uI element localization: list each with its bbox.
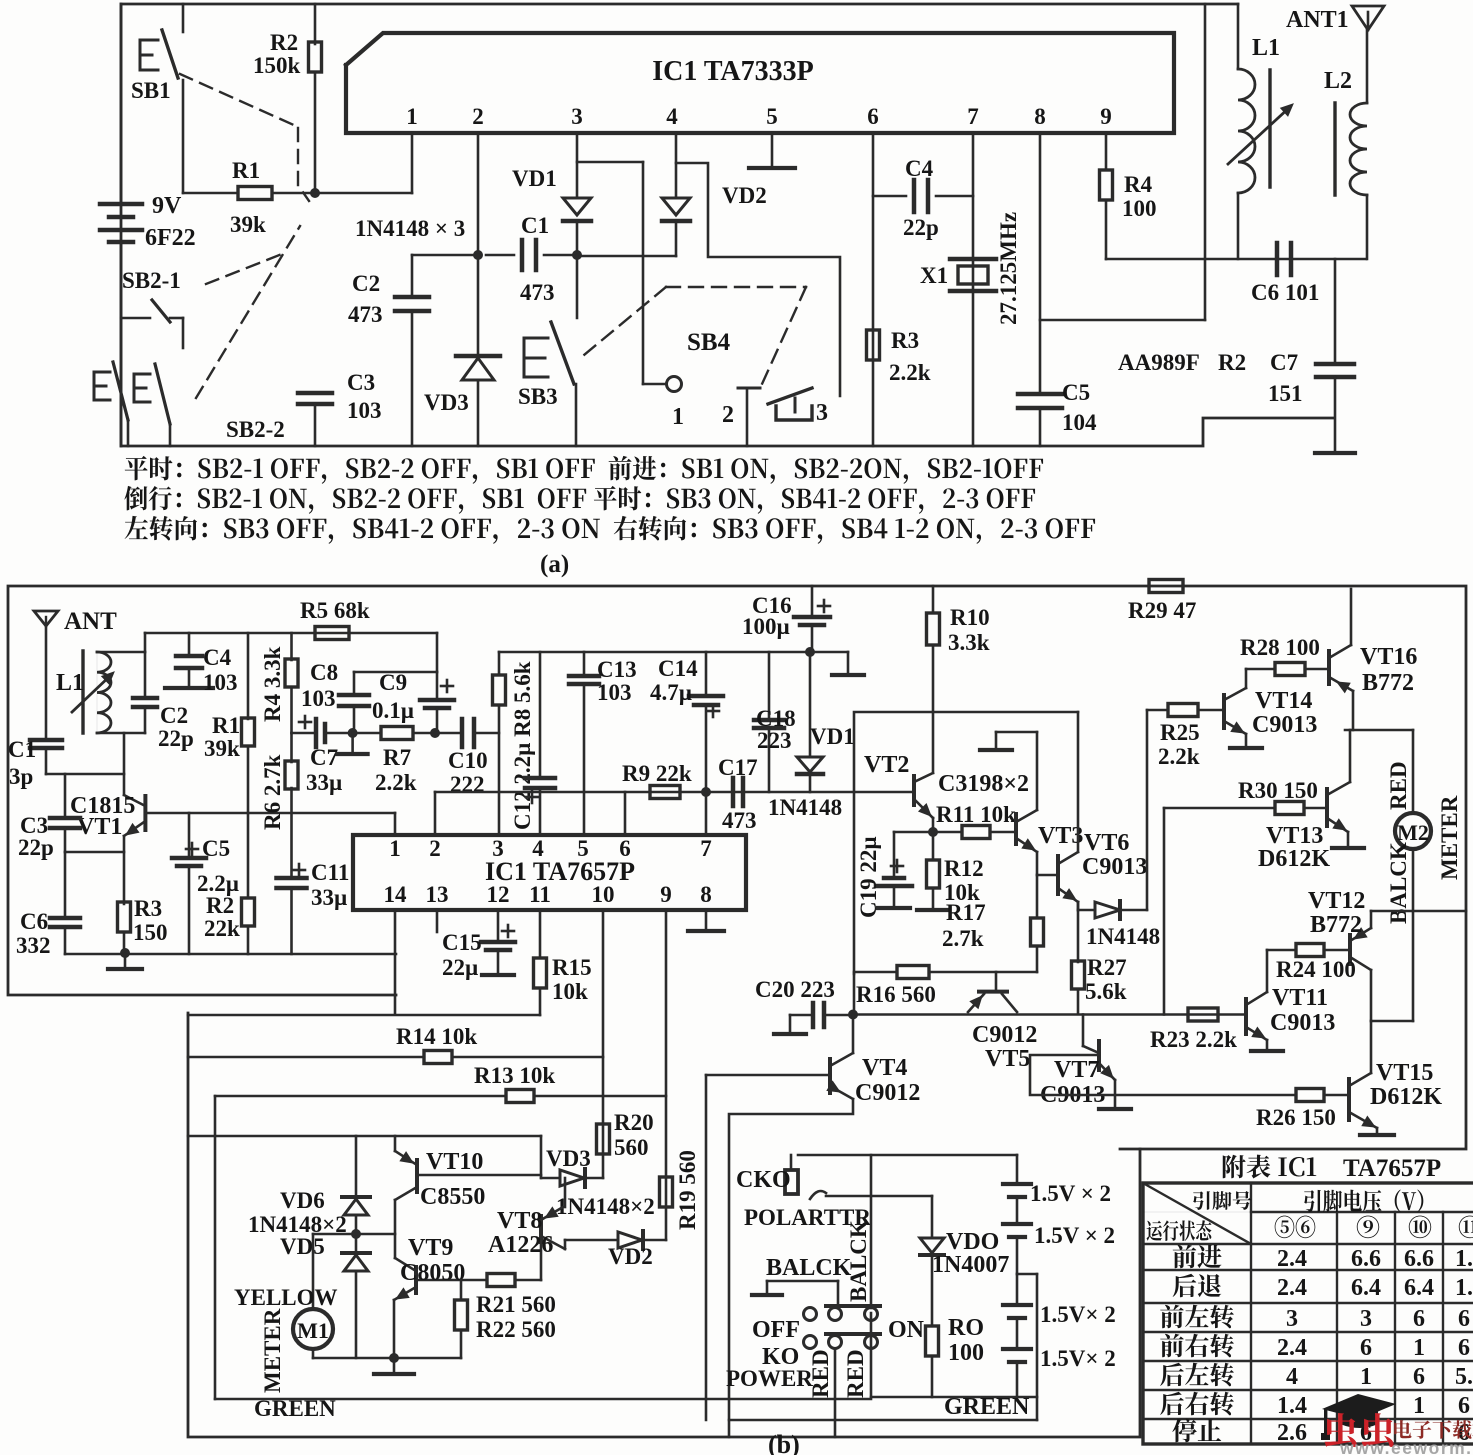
capacitor C15 22u	[497, 910, 500, 942]
resistor R19 560	[660, 1177, 673, 1207]
svg-text:33µ: 33µ	[306, 770, 342, 795]
svg-text:6: 6	[1458, 1393, 1470, 1419]
svg-text:1: 1	[1413, 1393, 1425, 1419]
svg-text:BALCK: BALCK	[766, 1255, 852, 1281]
capacitor C12 2.2u	[539, 652, 542, 778]
svg-text:8: 8	[1034, 104, 1046, 129]
svg-text:ANT: ANT	[64, 608, 117, 635]
resistor R20 560	[597, 1124, 610, 1154]
resistor R24 100	[1267, 949, 1296, 952]
resistor R9 22k	[650, 786, 680, 799]
wire pin8	[1039, 133, 1042, 394]
svg-text:39k: 39k	[204, 736, 240, 761]
wire C3 to emitter	[65, 851, 124, 854]
crystal CKO	[785, 1170, 798, 1194]
svg-text:R2: R2	[270, 30, 298, 55]
amp box right edge	[1077, 712, 1080, 852]
diode VD2 receiver	[565, 1239, 618, 1242]
table row lines	[1251, 1211, 1473, 1213]
svg-text:103: 103	[301, 686, 336, 711]
svg-text:R17: R17	[946, 900, 986, 925]
svg-text:1: 1	[406, 104, 418, 129]
wire box left edge to C20	[853, 974, 856, 1015]
inductor L1 tank	[1237, 4, 1240, 69]
M1 bottom wire	[312, 1349, 315, 1358]
transistor VT3	[1014, 814, 1018, 844]
svg-text:SB1: SB1	[131, 78, 171, 103]
svg-text:VT10: VT10	[426, 1149, 483, 1175]
transistor VT11 C9013	[1266, 950, 1269, 992]
dashed link SB2-1	[206, 254, 282, 284]
SB4 contact 3 lever	[768, 388, 812, 404]
svg-text:VT4: VT4	[862, 1055, 907, 1081]
svg-text:2.6: 2.6	[1277, 1420, 1307, 1446]
svg-text:104: 104	[1062, 410, 1097, 435]
svg-text:C15: C15	[442, 930, 482, 955]
table title 附表 IC1 TA7657P	[1223, 1155, 1316, 1179]
resistor R5 68k	[315, 627, 349, 640]
resistor R6 2.7k	[290, 733, 293, 762]
svg-text:2.2k: 2.2k	[889, 360, 931, 385]
svg-text:AA989F: AA989F	[1118, 350, 1200, 375]
capacitor C7 151	[1334, 259, 1337, 364]
svg-text:C1: C1	[521, 213, 549, 238]
top rail receiver	[145, 632, 437, 635]
ground rail	[65, 953, 396, 956]
capacitor C4 103	[188, 633, 191, 656]
wire VD2 bypass loop	[676, 163, 840, 396]
crystal X1 27.125MHz	[950, 257, 996, 262]
svg-text:332: 332	[16, 933, 51, 958]
wire VT4 emitter to switch box	[729, 1099, 853, 1437]
L1 core bar	[1268, 70, 1271, 187]
junction dot VD5 VD6	[351, 1229, 361, 1239]
svg-text:SB4: SB4	[687, 329, 731, 356]
svg-text:R20: R20	[614, 1110, 654, 1135]
svg-text:C13: C13	[597, 657, 637, 682]
svg-text:10k: 10k	[552, 979, 588, 1004]
svg-text:C5: C5	[1062, 380, 1090, 405]
svg-text:6: 6	[1458, 1306, 1470, 1332]
svg-text:2.4: 2.4	[1277, 1246, 1307, 1272]
table row 前右转	[1160, 1334, 1234, 1358]
wire R25 riser	[1146, 710, 1149, 910]
header 运行状态	[1147, 1220, 1212, 1241]
svg-text:1N4148 × 3: 1N4148 × 3	[355, 216, 465, 241]
wire pin1 down to node line	[411, 133, 414, 193]
svg-text:1.5V × 2: 1.5V × 2	[1034, 1223, 1115, 1248]
svg-text:6: 6	[619, 836, 631, 861]
circled pin numbers	[1275, 1216, 1316, 1239]
transistor VT5 C9012	[995, 972, 998, 991]
resistor R28 100	[1246, 668, 1275, 671]
svg-text:C9013: C9013	[1270, 1010, 1335, 1036]
svg-text:VT11: VT11	[1272, 985, 1328, 1011]
svg-text:2.4: 2.4	[1277, 1335, 1307, 1361]
wire C2 top line	[412, 254, 478, 257]
pin6 stub	[624, 792, 627, 835]
resistor R1 39k	[183, 192, 238, 195]
wire VT4 base long left wire	[705, 1075, 708, 1420]
svg-text:2: 2	[722, 402, 734, 428]
resistor R27 5.6k	[1077, 910, 1080, 962]
svg-text:0.1µ: 0.1µ	[372, 698, 414, 723]
wire SB1 to node R1 line	[182, 80, 185, 193]
pin7 stub	[705, 792, 708, 835]
diode VD1 1N4148	[809, 652, 812, 757]
svg-text:SB2-2: SB2-2	[226, 417, 285, 442]
svg-text:SB2-1: SB2-1	[122, 268, 181, 293]
wire C2/collector rail riser	[144, 633, 147, 652]
svg-text:2.2k: 2.2k	[375, 770, 417, 795]
M2 top wire RED	[1412, 730, 1415, 813]
resistor R7 2.2k	[353, 732, 381, 735]
svg-text:L1: L1	[1252, 35, 1280, 61]
caption line 2	[124, 486, 1035, 514]
svg-text:D612K: D612K	[1370, 1084, 1442, 1110]
wire pin8 to right vertical at y=320	[1040, 319, 1205, 322]
svg-text:R27: R27	[1087, 955, 1127, 980]
C5 label	[186, 848, 198, 851]
svg-text:R15: R15	[552, 955, 592, 980]
resistor R4 3.3k	[290, 633, 293, 660]
wire branch to SB4 contact1	[577, 161, 643, 164]
svg-text:VD2: VD2	[608, 1244, 653, 1269]
wire RED down	[834, 1349, 837, 1437]
svg-text:12: 12	[487, 882, 510, 907]
wire R15 line to left	[188, 1014, 540, 1017]
table row 后右转	[1160, 1392, 1234, 1416]
svg-text:VT2: VT2	[864, 752, 909, 778]
wire R13 line	[215, 1095, 506, 1098]
svg-text:R16 560: R16 560	[856, 982, 936, 1007]
svg-text:5.6k: 5.6k	[1085, 979, 1127, 1004]
svg-text:VT16: VT16	[1360, 644, 1417, 670]
transistor VT14 C9013	[1245, 669, 1248, 688]
resistor R14 10k	[424, 1051, 452, 1064]
C9 label	[441, 685, 453, 688]
svg-text:R24 100: R24 100	[1276, 957, 1356, 982]
VT7 base to R26	[1030, 1055, 1296, 1095]
resistor R23 2.2k	[1188, 1008, 1218, 1021]
svg-text:2.2k: 2.2k	[1158, 744, 1200, 769]
battery stack upper	[1016, 1155, 1019, 1183]
svg-text:R22 560: R22 560	[476, 1317, 556, 1342]
resistor R3 2.2k	[867, 330, 880, 360]
L2 core bar	[1333, 103, 1336, 195]
SB4 contact 1 circle	[643, 383, 666, 386]
transistor VT12 B772	[1348, 935, 1352, 964]
svg-text:150k: 150k	[253, 53, 301, 78]
M2 bottom wire BALCK	[1412, 849, 1415, 1021]
svg-text:B772: B772	[1310, 912, 1362, 938]
svg-text:RED: RED	[808, 1349, 833, 1398]
svg-text:1.5V× 2: 1.5V× 2	[1040, 1346, 1116, 1371]
svg-text:1: 1	[1413, 1335, 1425, 1361]
svg-text:C7: C7	[1270, 350, 1298, 375]
svg-text:6: 6	[1413, 1364, 1425, 1390]
svg-text:TA7657P: TA7657P	[1343, 1155, 1441, 1182]
capacitor C14 4.7u	[705, 652, 708, 696]
svg-text:2.7k: 2.7k	[942, 926, 984, 951]
svg-text:R1: R1	[212, 713, 240, 738]
wire C8 top link	[354, 671, 437, 674]
capacitor C3 22p	[64, 774, 67, 818]
switch hook	[810, 1191, 826, 1199]
ground C7	[1315, 451, 1355, 455]
table outer frame	[1143, 1183, 1473, 1444]
svg-text:R19 560: R19 560	[675, 1150, 700, 1230]
C7 label	[299, 721, 311, 724]
svg-text:9: 9	[1100, 104, 1112, 129]
svg-text:R5 68k: R5 68k	[300, 598, 370, 623]
junction dot C16	[805, 647, 815, 657]
header 引脚电压 V	[1304, 1190, 1423, 1213]
svg-text:1.: 1.	[1455, 1246, 1473, 1272]
svg-text:3: 3	[1360, 1306, 1372, 1332]
ground stub C16	[810, 651, 848, 654]
svg-text:22k: 22k	[204, 916, 240, 941]
svg-text:6: 6	[1413, 1306, 1425, 1332]
wire SB1 top stub	[182, 4, 185, 32]
upper rail y=652	[499, 651, 810, 654]
svg-text:223: 223	[757, 728, 792, 753]
wire green left	[214, 1096, 217, 1399]
svg-text:6.6: 6.6	[1351, 1246, 1381, 1272]
resistor R4 100	[1105, 133, 1108, 170]
diode VD5	[355, 1234, 358, 1253]
svg-text:103: 103	[347, 398, 382, 423]
watermark graduation cap	[1321, 1394, 1396, 1440]
pin2 stub	[434, 792, 437, 835]
antenna ANT	[34, 611, 58, 626]
svg-text:R25: R25	[1160, 720, 1200, 745]
svg-text:3: 3	[816, 400, 828, 426]
svg-text:5: 5	[766, 104, 778, 129]
resistor RO 100	[926, 1326, 939, 1356]
svg-text:R29 47: R29 47	[1128, 598, 1196, 623]
resistor R30 150	[1164, 807, 1275, 810]
capacitor C1 473	[520, 240, 525, 270]
svg-text:100: 100	[1122, 196, 1157, 221]
wire pin9	[665, 910, 668, 1240]
svg-text:13: 13	[426, 882, 449, 907]
wire rail corner to C9	[436, 633, 439, 672]
svg-text:L2: L2	[1324, 68, 1352, 94]
resistor R17 2.7k	[1031, 918, 1044, 946]
svg-text:www.eeworm.com: www.eeworm.com	[1339, 1438, 1473, 1455]
svg-text:C7: C7	[310, 745, 338, 770]
svg-text:C8550: C8550	[420, 1184, 485, 1210]
motor M2	[1395, 813, 1431, 849]
svg-text:100µ: 100µ	[742, 614, 790, 639]
resistor R16 560 line	[854, 971, 897, 974]
svg-text:6.6: 6.6	[1404, 1246, 1434, 1272]
junction dot C8	[348, 728, 358, 738]
svg-text:VD1: VD1	[810, 724, 855, 749]
svg-text:VD3: VD3	[424, 390, 469, 415]
svg-text:C12 2.2µ R8 5.6k: C12 2.2µ R8 5.6k	[510, 661, 535, 830]
wire driver top line	[188, 1135, 541, 1138]
table row 前左转	[1160, 1305, 1234, 1329]
pin14 stub to ground rail	[394, 910, 397, 1013]
table column lines	[1250, 1183, 1252, 1444]
svg-text:VD5: VD5	[280, 1234, 325, 1259]
transistor VT8 A1226	[540, 1242, 543, 1280]
svg-text:C20 223: C20 223	[755, 977, 835, 1002]
svg-text:VT8: VT8	[497, 1208, 542, 1234]
ground symbol M1	[393, 1358, 396, 1372]
svg-text:100: 100	[948, 1340, 984, 1366]
svg-text:7: 7	[967, 104, 979, 129]
svg-text:C14: C14	[658, 656, 698, 681]
svg-text:R30 150: R30 150	[1238, 778, 1318, 803]
svg-text:C6: C6	[20, 909, 48, 934]
VT3 collector to flipped ground	[1036, 732, 1039, 810]
receiver section (b) borders	[8, 586, 1466, 1149]
resistor R1 39k column	[247, 633, 250, 719]
svg-text:6: 6	[1360, 1335, 1372, 1361]
watermark 虫虫 red	[1325, 1413, 1394, 1447]
svg-text:R4 3.3k: R4 3.3k	[260, 646, 285, 722]
resistor R26 150	[1296, 1089, 1324, 1102]
svg-text:9: 9	[660, 882, 672, 907]
capacitor C9 0.1u	[436, 672, 439, 700]
wire green bottom	[729, 1419, 1037, 1422]
svg-text:473: 473	[520, 280, 555, 305]
svg-text:7: 7	[700, 836, 712, 861]
svg-text:VT7: VT7	[1054, 1057, 1099, 1083]
antenna ANT1	[1352, 6, 1384, 30]
svg-text:R3: R3	[134, 896, 162, 921]
svg-text:C11: C11	[311, 860, 349, 885]
svg-text:C2: C2	[160, 703, 188, 728]
svg-text:C9013: C9013	[1082, 854, 1147, 880]
svg-text:R14 10k: R14 10k	[396, 1024, 477, 1049]
capacitor C5 2.2u	[188, 813, 191, 858]
svg-text:4: 4	[1286, 1364, 1298, 1390]
svg-text:1: 1	[672, 404, 684, 430]
wire y=256 line	[577, 255, 676, 258]
svg-text:VT3: VT3	[1038, 823, 1083, 849]
svg-text:R13 10k: R13 10k	[474, 1063, 555, 1088]
svg-text:C2: C2	[352, 271, 380, 296]
svg-text:R28 100: R28 100	[1240, 635, 1320, 660]
svg-text:R7: R7	[383, 745, 411, 770]
L1 arrow	[1228, 107, 1290, 164]
capacitor C16 100u	[811, 586, 814, 617]
svg-text:C10: C10	[448, 748, 488, 773]
table row 后退	[1173, 1274, 1222, 1298]
svg-text:SB3: SB3	[518, 384, 558, 409]
svg-text:METER: METER	[1437, 795, 1462, 880]
capacitor C17 473	[731, 778, 736, 806]
svg-text:9V: 9V	[152, 193, 182, 219]
svg-text:C9013: C9013	[1252, 712, 1317, 738]
svg-text:VD1: VD1	[512, 166, 557, 191]
capacitor C3 103	[298, 391, 332, 396]
svg-text:10: 10	[592, 882, 615, 907]
capacitor C2 473	[411, 255, 414, 297]
resistor R25 2.2k	[1147, 709, 1168, 712]
inductor L2	[1366, 30, 1369, 103]
junction dot R7 out	[430, 728, 440, 738]
junction dot VT2 emitter	[928, 827, 938, 837]
wire battery bottom	[871, 1396, 1037, 1399]
svg-text:6.4: 6.4	[1404, 1275, 1434, 1301]
svg-text:5: 5	[577, 836, 589, 861]
transistor VT2	[912, 776, 916, 805]
SB4 contact 2	[746, 388, 749, 446]
svg-text:METER: METER	[260, 1308, 285, 1393]
svg-text:4: 4	[666, 104, 678, 129]
capacitor C19 22u	[894, 831, 933, 834]
watermark 电子下载站	[1394, 1420, 1473, 1439]
wire pin6	[872, 133, 875, 446]
svg-text:C9012: C9012	[855, 1080, 920, 1106]
ground stub	[351, 733, 354, 752]
resistor R12 10k	[932, 832, 935, 860]
svg-text:(a): (a)	[540, 551, 569, 578]
capacitor C6 332	[64, 852, 67, 918]
transistor VT16 B772	[1350, 589, 1353, 645]
svg-text:14: 14	[384, 882, 408, 907]
battery stack lower	[1016, 1274, 1019, 1304]
svg-text:4: 4	[532, 836, 544, 861]
svg-text:R10: R10	[950, 605, 990, 630]
svg-text:A1226: A1226	[488, 1232, 553, 1258]
transistor VT9 C8050	[414, 1267, 418, 1293]
wire R30 riser	[1163, 808, 1166, 1015]
capacitor C5 104	[1018, 392, 1062, 397]
signal line y=792	[435, 791, 914, 794]
wire M2 tap to border	[1371, 910, 1466, 913]
wire R14 line	[188, 1056, 424, 1059]
svg-text:VT6: VT6	[1084, 830, 1129, 856]
svg-text:POWER: POWER	[726, 1366, 813, 1391]
diode VD1	[576, 133, 579, 198]
battery 9V 6F22	[120, 4, 123, 203]
svg-text:1.5V× 2: 1.5V× 2	[1040, 1302, 1116, 1327]
L1 arrow	[72, 676, 110, 712]
ground pin5	[771, 133, 774, 166]
wire switch riser	[870, 1155, 873, 1308]
capacitor C4 22p	[873, 195, 906, 198]
switch SB4 dashed lever	[666, 286, 806, 288]
svg-text:R21 560: R21 560	[476, 1292, 556, 1317]
svg-text:103: 103	[597, 680, 632, 705]
resistor R29 47	[1149, 580, 1183, 593]
svg-text:VT15: VT15	[1376, 1060, 1433, 1086]
svg-text:11: 11	[529, 882, 551, 907]
C11 label	[293, 869, 305, 872]
svg-text:D612K: D612K	[1258, 846, 1330, 872]
capacitor C1 3p	[30, 738, 62, 743]
resistor R13 10k	[506, 1090, 534, 1103]
svg-text:R23 2.2k: R23 2.2k	[1150, 1027, 1237, 1052]
capacitor C18 223	[768, 652, 771, 720]
svg-text:VT14: VT14	[1255, 688, 1312, 714]
wire C1 to collector	[46, 773, 124, 776]
wire L1 bottom	[97, 732, 145, 735]
svg-text:ANT1: ANT1	[1286, 7, 1349, 33]
junction dot pin7	[701, 787, 711, 797]
C19 label	[891, 865, 903, 868]
svg-text:R1: R1	[232, 158, 260, 183]
svg-text:22p: 22p	[18, 835, 54, 860]
resistor R8 5.6k	[498, 652, 501, 675]
diode VDO 1N4007	[920, 1238, 944, 1253]
